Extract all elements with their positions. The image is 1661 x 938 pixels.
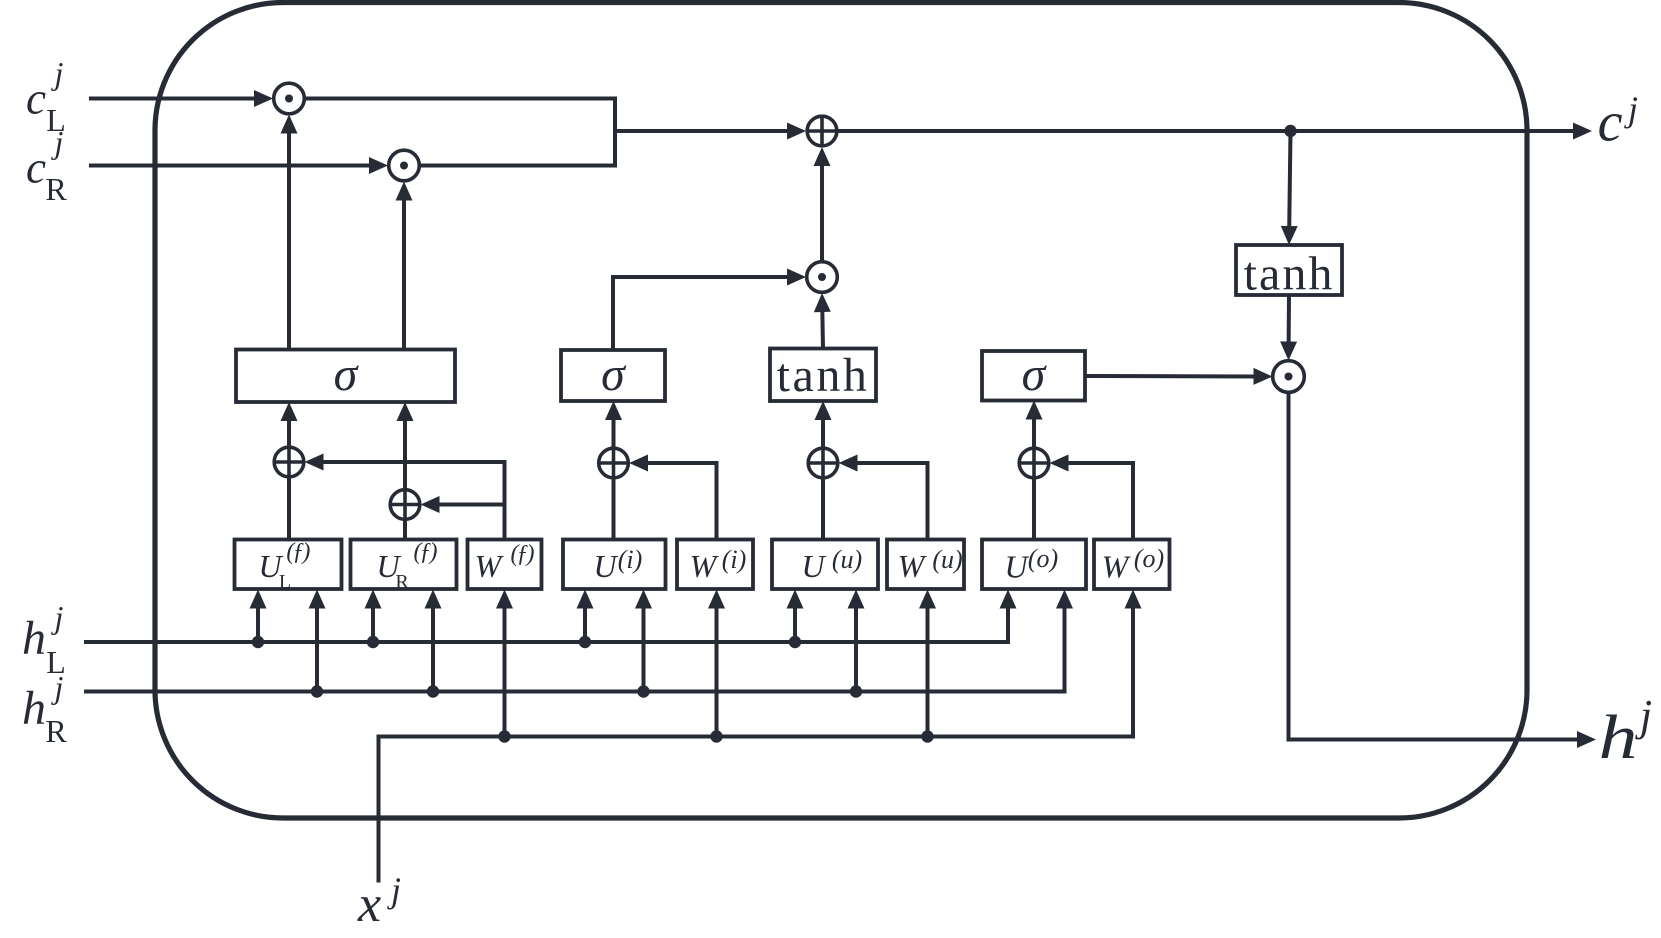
node odot o (o * tanh(c)) — [1273, 361, 1305, 393]
wire sigma o to odot o — [1085, 368, 1273, 385]
wire oplus o to sigma o — [1026, 401, 1043, 448]
svg-text:U: U — [593, 548, 618, 584]
wire odot iu to oplus c — [814, 147, 831, 261]
box U^(i) — [563, 540, 666, 590]
label c_R^j — [26, 124, 67, 207]
node oplus f_R — [390, 490, 420, 520]
svg-text:j: j — [387, 870, 401, 910]
wire h_R riser to U_Lf — [309, 590, 326, 692]
wire W_f to oplus f_L — [305, 454, 505, 540]
label h_L^j — [22, 599, 66, 680]
wire x riser to W_i — [708, 590, 725, 737]
svg-text:R: R — [395, 571, 409, 593]
node odot f_L (element-wise product) — [274, 83, 305, 114]
svg-text:h: h — [1599, 703, 1638, 772]
wire c_R input — [89, 157, 388, 174]
svg-text:W: W — [690, 548, 720, 584]
wire h_L riser to U_Rf — [365, 590, 382, 643]
box tanh (cell output squash) — [1236, 245, 1342, 301]
svg-text:L: L — [279, 571, 291, 593]
cell border (rounded rectangle) — [155, 3, 1527, 819]
wire h_L riser to U_Lf — [250, 590, 267, 643]
svg-text:c: c — [26, 143, 46, 193]
box sigma i (input gate) — [561, 348, 665, 401]
svg-text:x: x — [357, 876, 381, 933]
wire h_R riser to U_u — [848, 590, 865, 692]
wire U_u to oplus u — [821, 479, 825, 540]
junction h_L tap2 — [367, 636, 379, 648]
svg-text:j: j — [51, 55, 64, 91]
svg-text:W: W — [898, 548, 928, 584]
wire odot f_L to merge column — [305, 99, 615, 166]
box U_L^(f) — [235, 539, 342, 593]
svg-text:(i): (i) — [618, 545, 643, 574]
box U^(u) — [772, 540, 878, 590]
svg-text:(i): (i) — [722, 545, 747, 574]
node oplus u — [808, 448, 838, 478]
svg-text:h: h — [22, 612, 46, 665]
wire h_L riser to U_u — [787, 590, 804, 643]
wire W_u to oplus u — [839, 455, 928, 540]
wire h_L input line — [84, 590, 1017, 643]
wire W_i to oplus i — [629, 455, 717, 540]
wire oplus i to sigma i — [605, 401, 622, 448]
svg-text:(u): (u) — [832, 545, 862, 574]
svg-text:(ƒ): (ƒ) — [286, 539, 310, 565]
svg-text:h: h — [22, 682, 46, 735]
wire W_o to oplus o — [1050, 455, 1134, 540]
svg-text:(u): (u) — [932, 545, 962, 574]
svg-text:j: j — [1635, 691, 1652, 740]
junction x tap3 — [921, 730, 933, 742]
wire sigma i to odot iu — [613, 269, 806, 351]
wire x riser to W_u — [919, 590, 936, 737]
svg-text:j: j — [1624, 89, 1638, 129]
label h_R^j — [22, 669, 67, 749]
wire tanh box to odot o — [1280, 295, 1297, 361]
wire oplus f_R to sigma f — [397, 402, 414, 489]
svg-text:tanh: tanh — [1244, 248, 1335, 301]
svg-text:W: W — [475, 548, 505, 584]
node oplus c (cell sum) — [807, 116, 837, 146]
svg-text:W: W — [1102, 549, 1132, 585]
svg-text:U: U — [801, 548, 826, 584]
wire h output — [1289, 393, 1597, 749]
svg-text:c: c — [26, 74, 46, 124]
box tanh u (update) — [770, 349, 876, 403]
svg-text:R: R — [45, 171, 67, 207]
node oplus o — [1019, 448, 1049, 478]
junction h_R tap4 — [850, 685, 862, 697]
svg-text:σ: σ — [601, 348, 627, 401]
box U^(o) — [982, 540, 1086, 590]
box U_R^(f) — [351, 539, 457, 593]
wire U_Rf to oplus f_R — [403, 520, 407, 540]
wire c to tanh box — [1281, 131, 1298, 245]
svg-text:σ: σ — [1022, 348, 1048, 401]
box W^(i) — [677, 540, 753, 590]
label h^j — [1599, 691, 1652, 772]
wire h_R riser to U_Rf — [425, 590, 442, 692]
wire oplus u to tanh u — [815, 401, 832, 448]
svg-text:(o): (o) — [1134, 544, 1164, 573]
junction x tap1 — [498, 730, 510, 742]
wire h_R riser to U_i — [635, 590, 652, 692]
junction h_L tap4 — [789, 636, 801, 648]
junction h_L tap1 — [252, 636, 264, 648]
svg-text:(o): (o) — [1028, 544, 1058, 573]
wire x input line — [379, 590, 1142, 883]
junction h_L tap3 — [579, 636, 591, 648]
svg-text:(ƒ): (ƒ) — [414, 539, 438, 565]
wire x riser to W_f — [496, 590, 513, 737]
wire W_f branch to oplus f_R — [421, 496, 505, 513]
wire odot f_R to merge column — [420, 164, 617, 168]
wire U_o to oplus o — [1032, 479, 1036, 540]
junction h_R tap2 — [427, 685, 439, 697]
svg-text:U: U — [1004, 549, 1029, 585]
label c_L^j — [26, 55, 66, 138]
node odot f_R (element-wise product) — [389, 150, 420, 181]
svg-text:R: R — [45, 713, 67, 749]
svg-text:(ƒ): (ƒ) — [511, 541, 535, 567]
box W^(o) — [1094, 540, 1170, 590]
wire h_R input line — [84, 590, 1073, 692]
node odot iu (i * u) — [807, 262, 838, 293]
junction h_R tap1 — [311, 685, 323, 697]
junction on c line — [1284, 125, 1296, 137]
wire U_i to oplus i — [612, 479, 616, 540]
node oplus i — [599, 448, 629, 478]
box W^(f) — [468, 540, 542, 590]
wire h_L riser to U_i — [577, 590, 594, 643]
svg-text:c: c — [1598, 92, 1623, 154]
box sigma f (forget gates) — [236, 348, 455, 402]
label x^j — [357, 870, 401, 933]
node oplus f_L — [274, 447, 304, 477]
wire U_Lf to oplus f_L — [287, 478, 291, 540]
junction h_R tap3 — [637, 685, 649, 697]
wire sigma f to odot f_R — [396, 182, 413, 350]
box sigma o (output gate) — [982, 348, 1085, 401]
box W^(u) — [887, 540, 964, 590]
label c^j — [1598, 89, 1638, 154]
svg-text:σ: σ — [334, 348, 360, 401]
svg-text:j: j — [51, 599, 64, 635]
wire oplus f_L to sigma f — [281, 402, 298, 447]
wire c output line — [838, 123, 1592, 140]
wire merge to oplus c — [615, 123, 806, 140]
junction x tap2 — [710, 730, 722, 742]
svg-text:tanh: tanh — [777, 349, 870, 402]
wire c_L input — [89, 90, 273, 107]
wire tanh u to odot iu — [814, 293, 831, 349]
wire sigma f to odot f_L — [281, 115, 298, 350]
